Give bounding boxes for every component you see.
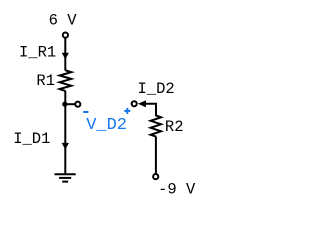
svg-text:V_D2: V_D2	[86, 116, 127, 135]
ground symbol	[55, 174, 76, 181]
wire R2 to -9V terminal	[155, 137, 157, 174]
terminal node -9 V	[153, 174, 158, 179]
svg-text:-9 V: -9 V	[158, 181, 196, 199]
terminal node minus side of V_D2	[75, 102, 80, 107]
resistor R2	[151, 116, 161, 137]
minus sign of V_D2	[83, 111, 88, 113]
svg-text:R1: R1	[36, 72, 55, 90]
resistor R1	[60, 70, 72, 91]
terminal node plus side of V_D2	[132, 101, 137, 106]
wire junction to left V_D2 terminal	[65, 103, 74, 105]
svg-text:I_D1: I_D1	[13, 130, 50, 148]
plus sign of V_D2	[124, 108, 130, 114]
wire junction to ground	[64, 104, 66, 173]
wire 6V terminal to R1	[64, 38, 66, 70]
current arrow I_D2	[138, 100, 146, 107]
svg-text:I_R1: I_R1	[19, 44, 56, 62]
current arrow I_R1	[62, 53, 69, 60]
svg-text:I_D2: I_D2	[138, 80, 175, 98]
svg-text:R2: R2	[165, 118, 184, 136]
terminal node 6 V	[63, 33, 68, 38]
junction node	[62, 102, 67, 107]
wire I_D2 terminal to R2	[145, 104, 157, 116]
wire R1 to junction	[64, 91, 66, 105]
current arrow I_D1	[62, 143, 69, 150]
svg-text:6 V: 6 V	[49, 12, 78, 30]
